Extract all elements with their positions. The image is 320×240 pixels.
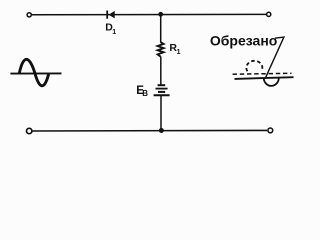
input AC source: axis line — [10, 72, 61, 74]
terminal: top-right open circle — [267, 12, 271, 16]
svg-text:Обрезано: Обрезано — [210, 33, 277, 49]
clipped waveform: dashed zero axis — [233, 72, 292, 75]
battery EB (4 plates) — [154, 85, 170, 95]
svg-text:1: 1 — [112, 29, 116, 36]
wire: junction down to resistor — [160, 15, 162, 43]
svg-text:B: B — [142, 89, 148, 98]
node: bottom junction dot — [159, 128, 164, 133]
wire: resistor down to battery — [160, 57, 162, 85]
leader line (7-shaped pointer) — [266, 37, 284, 78]
terminal: top-left open circle — [27, 13, 31, 17]
svg-text:1: 1 — [177, 49, 181, 56]
clipped waveform: solid negative hump — [264, 78, 279, 86]
diode D1 (cathode bar + left-pointing triangle) — [107, 11, 115, 19]
wire: bottom horizontal — [33, 129, 268, 132]
wire: battery down to bottom wire — [160, 96, 162, 131]
node: top junction dot — [158, 12, 163, 17]
terminal: bottom-right open circle — [268, 128, 273, 133]
clipped waveform: dashed positive hump (clipped away, circle) — [246, 61, 262, 71]
clipped waveform: solid output level line — [235, 77, 294, 79]
input AC source: sine wave — [19, 59, 49, 86]
wire: top horizontal — [32, 13, 267, 15]
resistor R1 (vertical zigzag) — [158, 42, 164, 56]
terminal: bottom-left open circle — [27, 128, 32, 133]
